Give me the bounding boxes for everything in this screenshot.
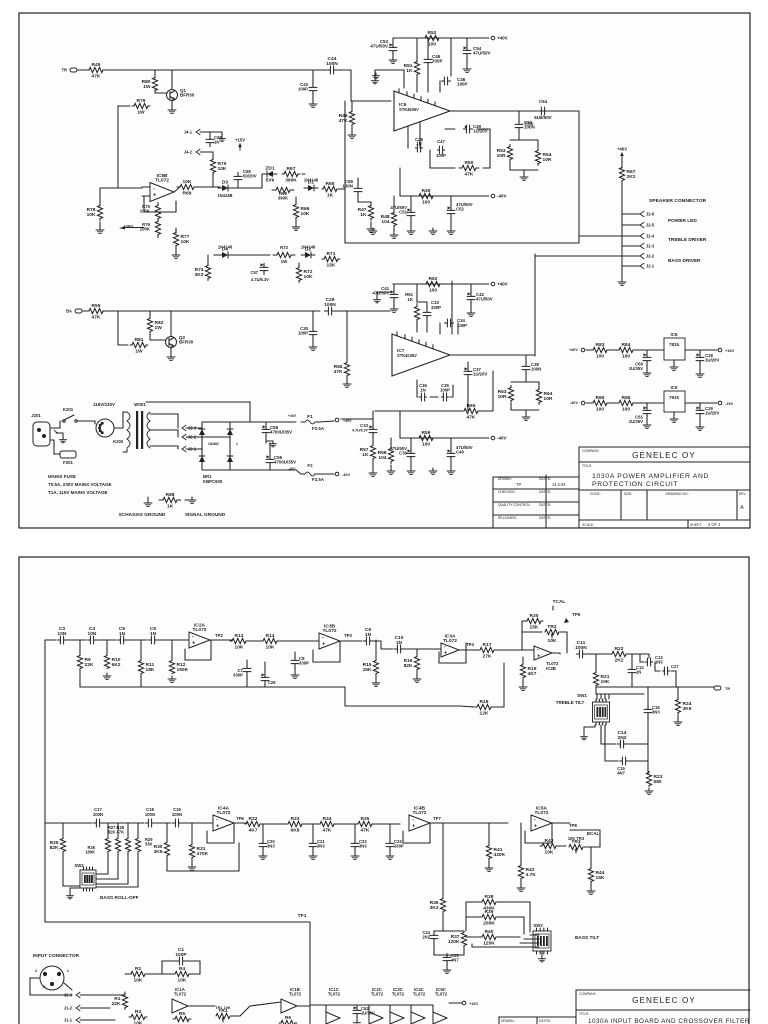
svg-text:R83: R83 <box>596 342 605 348</box>
svg-text:R43: R43 <box>545 838 554 844</box>
svg-text:TP4: TP4 <box>466 642 474 647</box>
svg-text:1K: 1K <box>408 297 414 302</box>
svg-text:6U8/50V: 6U8/50V <box>534 115 552 120</box>
svg-text:BA: BA <box>66 309 72 314</box>
svg-text:DATED:: DATED: <box>539 516 551 520</box>
svg-text:R32: R32 <box>249 816 258 822</box>
svg-text:TP8: TP8 <box>569 823 577 828</box>
svg-text:15K: 15K <box>530 625 539 631</box>
svg-text:COMPANY:: COMPANY: <box>582 449 600 453</box>
svg-text:2N2: 2N2 <box>618 735 627 741</box>
svg-text:R50: R50 <box>465 160 474 166</box>
svg-text:10K: 10K <box>601 679 610 685</box>
svg-text:TR: TR <box>725 687 730 691</box>
svg-text:1U/35V: 1U/35V <box>629 419 643 424</box>
svg-text:SIZE:: SIZE: <box>624 492 633 496</box>
svg-text:15K: 15K <box>596 875 605 881</box>
svg-text:BASS ROLL-OFF: BASS ROLL-OFF <box>100 895 139 901</box>
svg-text:RELEASED:: RELEASED: <box>498 516 517 520</box>
svg-text:POWER LED: POWER LED <box>668 218 697 224</box>
svg-text:10K: 10K <box>183 179 192 185</box>
svg-text:4.7K: 4.7K <box>526 872 537 878</box>
svg-text:J201: J201 <box>31 413 41 418</box>
svg-text:4K7: 4K7 <box>249 828 258 834</box>
svg-text:R67: R67 <box>287 166 296 172</box>
svg-text:C39: C39 <box>399 451 407 456</box>
svg-text:K202: K202 <box>113 439 124 444</box>
svg-text:-40V: -40V <box>497 194 507 199</box>
svg-text:470K: 470K <box>197 851 209 857</box>
svg-text:1N: 1N <box>119 631 126 637</box>
svg-text:10K: 10K <box>266 645 275 651</box>
svg-text:14.2.94: 14.2.94 <box>552 482 566 487</box>
svg-text:-: - <box>322 635 324 641</box>
svg-text:2N2: 2N2 <box>422 935 430 940</box>
svg-text:3K3: 3K3 <box>430 905 439 911</box>
svg-text:C64: C64 <box>539 99 548 104</box>
svg-text:3N3: 3N3 <box>359 844 367 849</box>
svg-text:50/20V: 50/20V <box>243 174 257 179</box>
svg-text:TR: TR <box>62 68 67 73</box>
svg-text:-40V: -40V <box>570 401 579 405</box>
svg-text:100: 100 <box>622 354 630 360</box>
svg-text:R2: R2 <box>135 966 142 972</box>
svg-text:+40V: +40V <box>569 348 578 352</box>
svg-text:TP5: TP5 <box>572 612 581 617</box>
svg-text:115V/230V: 115V/230V <box>93 402 115 407</box>
svg-text:J1-2: J1-2 <box>64 1005 73 1010</box>
svg-text:6K8: 6K8 <box>291 828 300 834</box>
svg-text:F2.5A: F2.5A <box>312 477 325 482</box>
svg-text:TP3: TP3 <box>344 633 352 638</box>
svg-text:BCAL: BCAL <box>587 831 600 836</box>
svg-text:330P: 330P <box>299 661 309 666</box>
svg-text:R33: R33 <box>291 816 300 822</box>
svg-text:47U/50V: 47U/50V <box>372 291 389 296</box>
svg-text:10R: 10R <box>543 157 552 163</box>
svg-text:4.7U/6.3Y: 4.7U/6.3Y <box>352 429 369 433</box>
svg-text:TR2: TR2 <box>547 624 556 630</box>
svg-text:1030A POWER AMPLIFIER AND: 1030A POWER AMPLIFIER AND <box>592 473 709 480</box>
svg-text:15K: 15K <box>327 263 336 269</box>
svg-text:22K: 22K <box>85 662 94 668</box>
svg-text:1U/20V: 1U/20V <box>361 1011 375 1016</box>
svg-text:R13: R13 <box>235 633 244 639</box>
svg-text:R59: R59 <box>422 430 431 436</box>
svg-text:J2-6: J2-6 <box>646 211 655 216</box>
svg-text:R39: R39 <box>485 909 494 915</box>
svg-text:J2-5: J2-5 <box>646 222 655 227</box>
svg-text:1030A INPUT BOARD AND CROSSOVE: 1030A INPUT BOARD AND CROSSOVER FILTER <box>588 1018 750 1024</box>
svg-text:F2: F2 <box>307 463 313 468</box>
svg-text:TP6: TP6 <box>236 816 244 821</box>
svg-text:R38: R38 <box>485 894 494 900</box>
svg-text:TL072: TL072 <box>534 810 548 816</box>
svg-text:R69: R69 <box>183 191 192 197</box>
svg-text:R3: R3 <box>135 1009 142 1015</box>
svg-text:KBPC600: KBPC600 <box>203 479 223 484</box>
svg-text:TL072: TL072 <box>216 810 230 816</box>
svg-text:SPEAKER CONNECTOR: SPEAKER CONNECTOR <box>649 198 707 204</box>
svg-text:1W: 1W <box>135 349 143 355</box>
svg-text:STK4636V: STK4636V <box>399 107 419 112</box>
svg-text:10K: 10K <box>134 978 143 984</box>
svg-text:-: - <box>412 817 414 823</box>
svg-text:104: 104 <box>378 455 386 461</box>
svg-text:100: 100 <box>622 407 630 413</box>
svg-text:330P: 330P <box>233 673 243 678</box>
svg-text:1N4002: 1N4002 <box>208 442 219 446</box>
svg-text:TL072: TL072 <box>392 992 405 997</box>
svg-text:+15V: +15V <box>235 138 245 143</box>
svg-text:-: - <box>153 186 155 192</box>
svg-text:100: 100 <box>596 354 604 360</box>
svg-text:C52: C52 <box>456 207 464 212</box>
svg-text:J2-3: J2-3 <box>646 243 655 248</box>
svg-text:COMPANY:: COMPANY: <box>579 992 597 996</box>
svg-text:100N: 100N <box>531 367 541 372</box>
svg-text:1N4148: 1N4148 <box>304 178 319 183</box>
svg-text:R34: R34 <box>323 816 332 822</box>
svg-text:47U/50V: 47U/50V <box>473 51 491 56</box>
svg-text:100N: 100N <box>342 184 353 189</box>
svg-text:330P: 330P <box>431 305 441 310</box>
svg-text:TL072: TL072 <box>155 177 169 183</box>
svg-text:+40V: +40V <box>288 414 297 418</box>
svg-text:1N: 1N <box>420 388 425 393</box>
svg-text:100P: 100P <box>457 82 468 87</box>
svg-text:+15V: +15V <box>725 349 734 353</box>
svg-text:104: 104 <box>381 219 389 225</box>
svg-text:82K: 82K <box>404 663 413 669</box>
svg-text:BFR30: BFR30 <box>179 340 194 345</box>
svg-text:3K9: 3K9 <box>154 849 163 855</box>
svg-text:1N: 1N <box>636 670 641 675</box>
svg-text:1U/20V: 1U/20V <box>473 372 487 377</box>
svg-text:82K 47K: 82K 47K <box>108 830 124 835</box>
svg-text:QUALITY CONTROL:: QUALITY CONTROL: <box>498 503 531 507</box>
svg-text:C51: C51 <box>399 210 407 215</box>
svg-text:+40V: +40V <box>617 147 627 152</box>
svg-text:R45: R45 <box>92 62 101 68</box>
svg-text:IC9: IC9 <box>671 385 678 390</box>
svg-text:-40V: -40V <box>342 473 351 477</box>
svg-text:TL072: TL072 <box>443 638 457 644</box>
svg-text:1N4148: 1N4148 <box>218 245 233 250</box>
svg-text:430K: 430K <box>494 852 506 858</box>
svg-text:82K: 82K <box>50 845 59 851</box>
svg-text:J2-4: J2-4 <box>646 233 655 238</box>
svg-text:47U/50V: 47U/50V <box>476 297 493 302</box>
svg-text:100N: 100N <box>524 125 535 130</box>
svg-text:R30: R30 <box>530 613 539 619</box>
svg-text:22K: 22K <box>112 1001 121 1007</box>
svg-text:100P: 100P <box>298 87 308 92</box>
svg-text:2K2: 2K2 <box>615 658 624 664</box>
svg-text:C57: C57 <box>251 270 259 275</box>
svg-text:TR1 10K: TR1 10K <box>215 1006 231 1010</box>
svg-text:100N: 100N <box>145 812 155 817</box>
svg-text:IC8: IC8 <box>671 332 678 337</box>
svg-text:C28: C28 <box>268 680 276 685</box>
svg-text:SHEET:: SHEET: <box>690 523 702 527</box>
svg-text:+40V: +40V <box>343 419 352 423</box>
svg-text:R22: R22 <box>615 646 624 652</box>
svg-text:100P: 100P <box>436 153 446 158</box>
svg-text:7915: 7915 <box>669 395 680 400</box>
svg-text:2K2: 2K2 <box>627 174 636 180</box>
svg-text:10N: 10N <box>88 631 97 637</box>
svg-text:TL072: TL072 <box>413 992 426 997</box>
svg-text:R5: R5 <box>179 1011 186 1017</box>
svg-text:1N: 1N <box>365 632 372 638</box>
svg-text:R40: R40 <box>485 929 494 935</box>
svg-text:100: 100 <box>428 42 436 48</box>
svg-text:DRAWING NO:: DRAWING NO: <box>665 492 688 496</box>
svg-text:10K: 10K <box>87 212 96 218</box>
svg-text:10K: 10K <box>235 645 244 651</box>
svg-text:1K: 1K <box>360 212 367 218</box>
svg-text:1U/35V: 1U/35V <box>629 366 643 371</box>
svg-text:CHECKED:: CHECKED: <box>498 490 516 494</box>
svg-text:2: 2 <box>35 969 37 973</box>
svg-text:-: - <box>192 634 194 640</box>
svg-text:1K: 1K <box>327 193 334 199</box>
svg-text:27K: 27K <box>483 654 492 660</box>
svg-text:47K: 47K <box>92 315 101 321</box>
svg-text:1K: 1K <box>167 504 174 510</box>
svg-text:1W: 1W <box>143 84 151 90</box>
svg-text:F1: F1 <box>307 414 313 420</box>
svg-text:J1-3: J1-3 <box>64 992 73 997</box>
svg-text:100: 100 <box>422 200 430 206</box>
svg-text:BFR30: BFR30 <box>180 93 195 98</box>
svg-text:R79: R79 <box>137 98 146 104</box>
svg-text:SW2: SW2 <box>74 863 84 868</box>
svg-text:TP: TP <box>516 482 521 487</box>
svg-text:SCHASSIS GROUND: SCHASSIS GROUND <box>119 512 166 518</box>
svg-text:TL072: TL072 <box>371 992 384 997</box>
svg-text:10K: 10K <box>218 166 227 172</box>
svg-text:D3: D3 <box>222 180 229 186</box>
svg-text:R62: R62 <box>429 276 438 282</box>
svg-text:R85: R85 <box>596 395 605 401</box>
svg-text:47U/50V: 47U/50V <box>370 44 388 49</box>
svg-text:4K7: 4K7 <box>528 671 537 677</box>
svg-text:2: 2 <box>236 442 238 446</box>
svg-text:330P: 330P <box>394 844 404 849</box>
svg-text:TL072: TL072 <box>412 810 426 816</box>
svg-text:INPUT CONNECTOR: INPUT CONNECTOR <box>33 953 80 959</box>
svg-text:R71: R71 <box>327 251 336 257</box>
svg-text:PROTECTION CIRCUIT: PROTECTION CIRCUIT <box>592 481 678 488</box>
svg-text:330P: 330P <box>432 59 443 64</box>
svg-text:BASS TILT: BASS TILT <box>575 935 599 941</box>
svg-text:1N: 1N <box>416 141 421 146</box>
svg-text:TL072: TL072 <box>328 992 341 997</box>
svg-text:SW3: SW3 <box>533 923 543 928</box>
svg-text:1U/20V: 1U/20V <box>705 358 719 363</box>
svg-text:R65: R65 <box>326 181 335 187</box>
svg-text:10K: 10K <box>178 978 187 984</box>
svg-text:3N3: 3N3 <box>317 844 325 849</box>
svg-text:+40V: +40V <box>497 282 508 287</box>
svg-text:F2.5A: F2.5A <box>312 426 325 431</box>
svg-text:10R: 10R <box>497 153 506 159</box>
svg-text:ZD1: ZD1 <box>265 166 274 172</box>
svg-text:4N7: 4N7 <box>451 958 459 963</box>
svg-text:3: 3 <box>43 985 45 989</box>
svg-text:F201: F201 <box>63 460 73 465</box>
svg-text:STK4036V: STK4036V <box>397 353 417 358</box>
svg-text:200K: 200K <box>483 921 495 927</box>
svg-text:4700U/35V: 4700U/35V <box>270 430 292 435</box>
svg-text:REV:: REV: <box>739 492 746 496</box>
svg-text:-40V: -40V <box>288 467 296 471</box>
svg-text:TCAL: TCAL <box>553 599 566 605</box>
svg-text:100K: 100K <box>140 209 151 214</box>
svg-text:10K: 10K <box>134 1021 143 1024</box>
svg-text:R86: R86 <box>622 395 631 401</box>
svg-text:100P: 100P <box>175 952 187 958</box>
svg-text:10R: 10R <box>498 394 507 400</box>
svg-text:150K: 150K <box>177 667 189 673</box>
svg-text:10K: 10K <box>181 239 190 245</box>
svg-text:TL072: TL072 <box>322 628 336 634</box>
svg-text:-: - <box>216 817 218 823</box>
svg-text:R4: R4 <box>179 966 186 972</box>
svg-text:100P: 100P <box>440 388 450 393</box>
svg-text:TREBLE DRIVER: TREBLE DRIVER <box>668 237 707 243</box>
svg-text:IC3B: IC3B <box>546 666 556 671</box>
svg-text:J2-1: J2-1 <box>646 263 655 268</box>
svg-text:MAINS FUSE: MAINS FUSE <box>48 474 76 479</box>
svg-text:100: 100 <box>596 407 604 413</box>
svg-text:R81: R81 <box>135 337 144 343</box>
svg-text:1N: 1N <box>214 140 219 145</box>
svg-text:GENELEC OY: GENELEC OY <box>632 451 696 460</box>
svg-text:120K: 120K <box>483 941 495 947</box>
svg-text:TL072: TL072 <box>289 992 302 997</box>
svg-text:3K9: 3K9 <box>683 706 692 712</box>
svg-text:R52: R52 <box>428 30 437 36</box>
svg-text:2 OF 2: 2 OF 2 <box>708 522 721 527</box>
svg-text:1N414B: 1N414B <box>218 193 233 198</box>
svg-text:1K: 1K <box>362 452 369 458</box>
svg-text:C33: C33 <box>360 423 368 428</box>
svg-text:100N: 100N <box>326 61 338 67</box>
svg-text:R84: R84 <box>622 342 631 348</box>
svg-text:J4-2: J4-2 <box>184 149 193 154</box>
svg-text:10K: 10K <box>304 274 313 280</box>
svg-text:TL072: TL072 <box>435 992 448 997</box>
svg-text:T1A, 115V MAINS VOLTAGE: T1A, 115V MAINS VOLTAGE <box>48 490 108 495</box>
svg-text:-: - <box>537 647 539 653</box>
svg-text:47K: 47K <box>467 415 476 421</box>
svg-text:47K: 47K <box>361 828 370 834</box>
svg-text:10K: 10K <box>301 211 310 217</box>
svg-text:J1-1: J1-1 <box>64 1017 73 1022</box>
svg-text:1N4148: 1N4148 <box>301 245 316 250</box>
svg-text:6K2: 6K2 <box>112 662 121 668</box>
svg-text:47K: 47K <box>92 74 101 80</box>
svg-text:120K: 120K <box>448 939 460 945</box>
svg-text:SIGNAL GROUND: SIGNAL GROUND <box>185 512 226 518</box>
svg-text:1N: 1N <box>396 640 403 646</box>
svg-text:100: 100 <box>422 442 430 448</box>
svg-text:100N: 100N <box>93 812 103 817</box>
svg-text:W001: W001 <box>134 402 146 407</box>
svg-text:4.7U/6.3V: 4.7U/6.3V <box>251 277 269 282</box>
svg-text:R49: R49 <box>422 188 431 194</box>
svg-text:TP2: TP2 <box>215 633 223 638</box>
svg-text:18K: 18K <box>146 667 155 673</box>
svg-text:GENELEC OY: GENELEC OY <box>632 996 696 1005</box>
svg-text:-: - <box>534 817 536 823</box>
svg-text:DRAWN:: DRAWN: <box>498 477 512 481</box>
svg-text:10R: 10R <box>544 396 553 402</box>
svg-text:TL072: TL072 <box>174 992 187 997</box>
svg-text:K201: K201 <box>63 407 74 412</box>
svg-text:100P: 100P <box>298 331 308 336</box>
svg-text:1N5: 1N5 <box>655 660 663 665</box>
svg-text:T0.5A, 230V MAINS VOLTAGE: T0.5A, 230V MAINS VOLTAGE <box>48 482 112 487</box>
svg-text:R35: R35 <box>361 816 370 822</box>
svg-text:CODE:: CODE: <box>590 492 601 496</box>
svg-text:47K: 47K <box>465 172 474 178</box>
svg-text:R55: R55 <box>92 303 101 309</box>
svg-text:47K: 47K <box>323 828 332 834</box>
svg-text:100N: 100N <box>324 302 336 308</box>
svg-text:7815: 7815 <box>669 342 680 347</box>
svg-text:3K3: 3K3 <box>195 272 204 278</box>
svg-text:TL072: TL072 <box>192 627 206 633</box>
svg-text:+15V: +15V <box>469 1002 478 1006</box>
svg-text:TREBLE TILT: TREBLE TILT <box>556 700 585 705</box>
svg-text:100N: 100N <box>172 812 182 817</box>
svg-text:1K: 1K <box>406 68 413 74</box>
svg-text:-: - <box>444 644 446 650</box>
svg-text:C27: C27 <box>671 664 679 669</box>
svg-text:TP7: TP7 <box>433 816 441 821</box>
svg-text:DATED:: DATED: <box>539 503 551 507</box>
svg-text:C47: C47 <box>437 139 445 144</box>
svg-text:TITLE:: TITLE: <box>579 1012 589 1016</box>
svg-text:R88: R88 <box>166 492 175 498</box>
svg-text:J2-2: J2-2 <box>646 253 655 258</box>
svg-text:390K: 390K <box>278 196 289 201</box>
svg-text:-15V: -15V <box>725 402 734 406</box>
svg-text:-40V: -40V <box>497 436 507 441</box>
svg-text:R73: R73 <box>280 245 288 250</box>
svg-text:4700U/35V: 4700U/35V <box>274 460 296 465</box>
svg-text:R14: R14 <box>266 633 275 639</box>
svg-text:100: 100 <box>429 288 437 294</box>
svg-text:180K: 180K <box>85 850 95 855</box>
svg-text:TP1: TP1 <box>298 913 307 919</box>
svg-text:5V6: 5V6 <box>266 178 275 184</box>
svg-text:47K: 47K <box>339 118 348 124</box>
svg-text:R6: R6 <box>285 1015 292 1021</box>
svg-text:DRAWN:: DRAWN: <box>501 1019 515 1023</box>
svg-text:1W: 1W <box>281 259 288 264</box>
svg-text:DATED:: DATED: <box>539 477 551 481</box>
svg-text:SCALE:: SCALE: <box>582 523 594 527</box>
svg-text:15K: 15K <box>363 667 372 673</box>
svg-text:J4-1: J4-1 <box>184 129 193 134</box>
svg-text:BASS DRIVER: BASS DRIVER <box>668 258 701 264</box>
svg-text:33K: 33K <box>145 842 153 847</box>
